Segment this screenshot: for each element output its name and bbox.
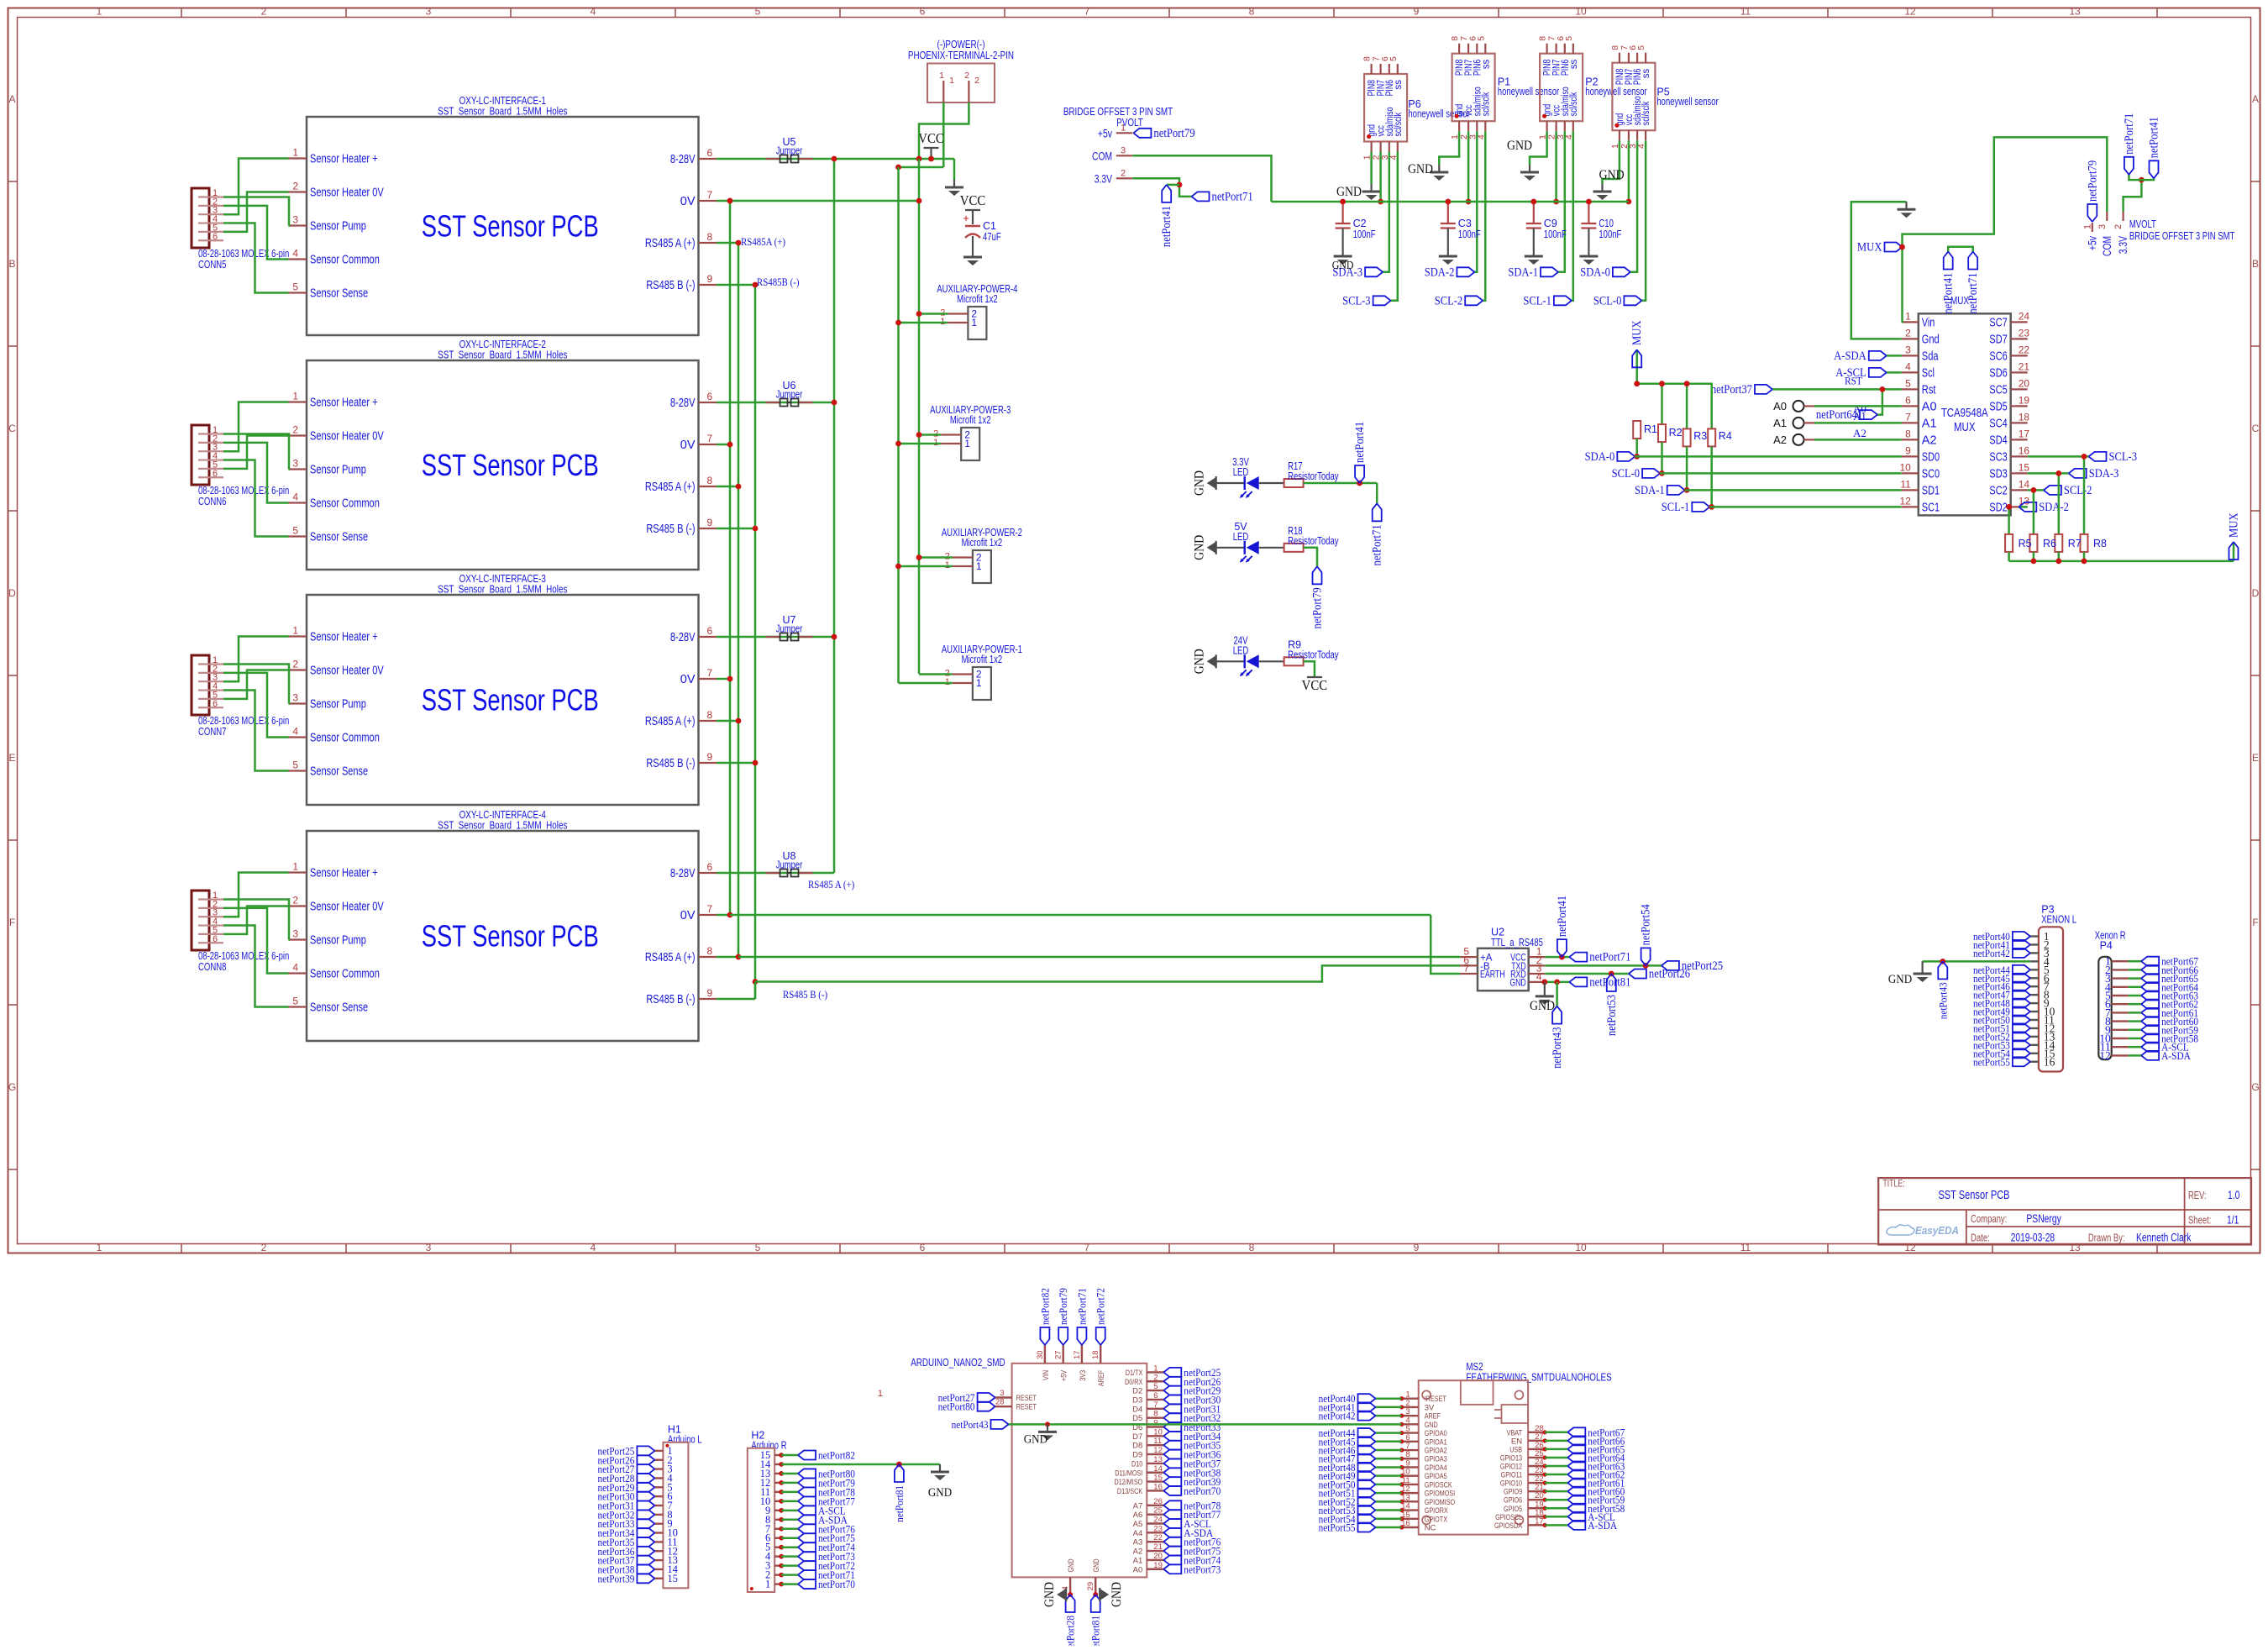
svg-text:MUX: MUX	[1630, 320, 1644, 345]
svg-text:Gnd: Gnd	[1922, 333, 1940, 346]
svg-text:C: C	[8, 423, 16, 434]
svg-text:C: C	[2252, 423, 2260, 434]
svg-text:R2: R2	[1669, 427, 1683, 439]
svg-text:18: 18	[1091, 1350, 1100, 1359]
svg-text:25: 25	[1153, 1506, 1163, 1516]
svg-text:47uF: 47uF	[983, 231, 1001, 243]
svg-text:+5v: +5v	[1098, 127, 1112, 139]
svg-text:100nF: 100nF	[1599, 229, 1621, 240]
svg-text:10: 10	[1575, 1242, 1587, 1253]
svg-text:PHOENIX-TERMINAL-2-PIN: PHOENIX-TERMINAL-2-PIN	[908, 49, 1014, 61]
svg-text:6: 6	[920, 6, 926, 18]
svg-text:A7: A7	[1133, 1501, 1143, 1511]
svg-text:A3: A3	[1133, 1538, 1143, 1548]
svg-text:20: 20	[1153, 1552, 1163, 1561]
svg-text:Sensor Heater +: Sensor Heater +	[310, 631, 378, 644]
svg-text:D0/RX: D0/RX	[1125, 1378, 1143, 1387]
svg-text:ss: ss	[1394, 80, 1404, 90]
svg-text:SDA-1: SDA-1	[1508, 265, 1538, 279]
svg-text:Sensor Pump: Sensor Pump	[310, 220, 366, 234]
svg-text:11: 11	[1153, 1437, 1162, 1446]
svg-text:SDA-1: SDA-1	[1635, 484, 1665, 497]
svg-text:GND: GND	[1092, 1558, 1101, 1572]
svg-text:A1: A1	[1773, 417, 1787, 429]
svg-text:SST Sensor PCB: SST Sensor PCB	[1938, 1189, 2009, 1202]
svg-text:netPort79: netPort79	[1311, 587, 1325, 628]
svg-text:honeywell sensor: honeywell sensor	[1656, 96, 1718, 108]
svg-text:8: 8	[707, 945, 713, 957]
svg-text:D: D	[8, 587, 16, 599]
svg-text:netPort82: netPort82	[1038, 1288, 1051, 1325]
svg-text:20: 20	[2019, 377, 2030, 389]
svg-text:SD6: SD6	[1989, 366, 2007, 380]
svg-text:RESET: RESET	[1016, 1394, 1037, 1403]
svg-text:7: 7	[1463, 963, 1469, 975]
svg-text:netPort55: netPort55	[1319, 1521, 1356, 1534]
svg-text:1: 1	[976, 677, 982, 689]
svg-text:10: 10	[1153, 1427, 1163, 1437]
svg-text:A2: A2	[1133, 1548, 1143, 1557]
svg-text:ss: ss	[1481, 59, 1491, 69]
svg-text:A1: A1	[1133, 1556, 1143, 1565]
svg-text:A-SDA: A-SDA	[1834, 349, 1866, 363]
svg-text:CONN5: CONN5	[198, 259, 226, 271]
svg-text:CONN7: CONN7	[198, 726, 226, 738]
svg-text:GND: GND	[1332, 259, 1354, 271]
svg-text:A2: A2	[1773, 434, 1787, 446]
svg-text:23: 23	[2019, 327, 2030, 339]
svg-text:Arduino L: Arduino L	[668, 1434, 702, 1446]
svg-text:0V: 0V	[680, 195, 696, 208]
svg-text:D11/MOSI: D11/MOSI	[1115, 1469, 1142, 1478]
svg-text:netPort43: netPort43	[952, 1418, 989, 1431]
svg-text:10: 10	[1899, 461, 1911, 473]
svg-text:1/1: 1/1	[2227, 1214, 2239, 1227]
svg-text:SC3: SC3	[1989, 450, 2007, 464]
svg-text:Sensor Heater 0V: Sensor Heater 0V	[310, 665, 384, 678]
svg-text:RS485 B (-): RS485 B (-)	[646, 279, 695, 292]
svg-text:RESET: RESET	[1016, 1403, 1037, 1412]
svg-text:SCL-3: SCL-3	[1342, 294, 1370, 307]
svg-text:3: 3	[292, 214, 298, 226]
svg-text:13: 13	[2069, 6, 2081, 18]
svg-text:REV:: REV:	[2188, 1190, 2207, 1201]
svg-text:5: 5	[1564, 36, 1574, 41]
svg-text:MVOLT: MVOLT	[2129, 218, 2156, 230]
svg-text:SD2: SD2	[1989, 501, 2007, 514]
svg-text:D10: D10	[1131, 1459, 1142, 1469]
svg-text:13: 13	[1153, 1455, 1163, 1464]
svg-text:5: 5	[1153, 1382, 1158, 1391]
svg-text:11: 11	[1900, 478, 1911, 490]
svg-text:G: G	[8, 1081, 16, 1093]
svg-text:Scl: Scl	[1922, 366, 1935, 380]
svg-text:D4: D4	[1132, 1405, 1142, 1414]
svg-text:netPort41: netPort41	[2148, 117, 2161, 158]
svg-text:14: 14	[1153, 1464, 1163, 1474]
svg-text:1: 1	[976, 560, 982, 572]
svg-text:4: 4	[591, 1242, 596, 1253]
svg-text:1: 1	[765, 1579, 770, 1590]
svg-text:30: 30	[1036, 1350, 1045, 1359]
svg-text:netPort55: netPort55	[1973, 1055, 2010, 1068]
svg-text:C2: C2	[1353, 218, 1367, 229]
svg-text:2: 2	[292, 424, 298, 436]
svg-text:SC1: SC1	[1922, 501, 1940, 514]
svg-text:08-28-1063 MOLEX 6-pin: 08-28-1063 MOLEX 6-pin	[198, 248, 289, 260]
svg-text:SST_Sensor_Board_1.5MM_Holes: SST_Sensor_Board_1.5MM_Holes	[438, 349, 568, 361]
svg-text:6: 6	[707, 861, 713, 873]
svg-text:4: 4	[591, 6, 596, 18]
svg-text:GND: GND	[1042, 1582, 1057, 1607]
svg-text:2: 2	[1905, 327, 1911, 339]
svg-text:C9: C9	[1544, 218, 1557, 229]
svg-text:SCL-2: SCL-2	[1435, 294, 1462, 307]
svg-text:+5v: +5v	[2086, 236, 2098, 250]
svg-text:1: 1	[97, 6, 102, 18]
svg-text:26: 26	[1153, 1497, 1163, 1506]
svg-text:18: 18	[2019, 411, 2030, 423]
svg-text:12: 12	[2099, 1049, 2111, 1062]
svg-text:ResistorToday: ResistorToday	[1288, 535, 1339, 547]
svg-text:7: 7	[707, 433, 713, 444]
svg-text:9: 9	[1414, 1242, 1420, 1253]
svg-text:8: 8	[707, 709, 713, 721]
svg-text:3: 3	[426, 6, 432, 18]
svg-text:9: 9	[1414, 6, 1420, 18]
svg-text:RS485B (-): RS485B (-)	[757, 276, 799, 288]
svg-text:VIN: VIN	[1042, 1370, 1051, 1380]
svg-text:honeywell sensor: honeywell sensor	[1498, 86, 1559, 97]
svg-text:2: 2	[292, 659, 298, 670]
svg-text:5: 5	[292, 525, 298, 537]
svg-text:D12/MISO: D12/MISO	[1114, 1478, 1142, 1487]
svg-text:8-28V: 8-28V	[670, 631, 696, 644]
svg-text:RS485A (+): RS485A (+)	[741, 236, 785, 248]
svg-text:SST Sensor PCB: SST Sensor PCB	[422, 919, 599, 954]
svg-text:5: 5	[1905, 377, 1911, 389]
svg-text:7: 7	[707, 903, 713, 915]
svg-text:6: 6	[920, 1242, 926, 1253]
svg-text:Sensor Common: Sensor Common	[310, 254, 380, 267]
svg-text:Jumper: Jumper	[776, 145, 803, 157]
svg-text:12: 12	[1899, 495, 1911, 507]
svg-text:netPort37: netPort37	[1711, 383, 1752, 397]
svg-text:100nF: 100nF	[1353, 229, 1376, 240]
svg-text:SC7: SC7	[1989, 316, 2007, 329]
svg-text:7: 7	[707, 667, 713, 679]
svg-text:GND: GND	[1507, 139, 1532, 153]
svg-text:3: 3	[1905, 344, 1911, 355]
svg-text:100nF: 100nF	[1544, 229, 1567, 240]
svg-text:SST_Sensor_Board_1.5MM_Holes: SST_Sensor_Board_1.5MM_Holes	[438, 105, 568, 118]
svg-text:B: B	[8, 258, 15, 270]
svg-text:GND: GND	[1067, 1558, 1076, 1572]
svg-text:Sensor Common: Sensor Common	[310, 968, 380, 981]
svg-text:A-SDA: A-SDA	[1588, 1519, 1617, 1532]
svg-text:GND: GND	[1530, 999, 1555, 1013]
svg-text:0V: 0V	[680, 439, 696, 452]
svg-text:D7: D7	[1132, 1432, 1142, 1442]
svg-text:F: F	[2252, 917, 2258, 928]
svg-text:24: 24	[1153, 1516, 1163, 1525]
svg-text:R4: R4	[1719, 430, 1732, 442]
svg-text:SST Sensor PCB: SST Sensor PCB	[422, 683, 599, 717]
svg-text:11: 11	[1740, 1242, 1751, 1253]
svg-text:B: B	[2252, 258, 2259, 270]
svg-text:MUX: MUX	[2228, 512, 2241, 538]
svg-text:12: 12	[1153, 1446, 1163, 1455]
svg-text:3: 3	[2097, 224, 2108, 229]
svg-text:A4: A4	[1133, 1529, 1143, 1538]
svg-text:netPort81: netPort81	[893, 1485, 906, 1522]
svg-text:9: 9	[707, 517, 713, 528]
svg-text:Sensor Pump: Sensor Pump	[310, 464, 366, 477]
svg-text:A0: A0	[1133, 1565, 1143, 1574]
svg-text:4: 4	[292, 962, 298, 974]
svg-text:22: 22	[1153, 1533, 1163, 1542]
svg-text:SDA-0: SDA-0	[1585, 450, 1615, 464]
svg-text:2: 2	[261, 6, 267, 18]
svg-text:9: 9	[1905, 444, 1911, 456]
svg-text:CONN6: CONN6	[198, 496, 226, 507]
svg-text:16: 16	[2044, 1055, 2055, 1068]
svg-text:Microfit 1x2: Microfit 1x2	[950, 414, 991, 426]
svg-text:22: 22	[2019, 344, 2030, 355]
svg-text:Sheet:: Sheet:	[2188, 1215, 2211, 1227]
svg-text:3: 3	[292, 692, 298, 704]
svg-text:16: 16	[1153, 1482, 1163, 1491]
svg-text:Sensor Sense: Sensor Sense	[310, 531, 368, 544]
svg-text:P4: P4	[2100, 940, 2113, 952]
svg-text:29: 29	[1086, 1582, 1095, 1591]
svg-text:Sensor Common: Sensor Common	[310, 497, 380, 511]
svg-text:D9: D9	[1132, 1451, 1142, 1460]
svg-text:SCL-0: SCL-0	[1593, 294, 1621, 307]
svg-text:7: 7	[707, 189, 713, 201]
svg-text:RS485 A (+): RS485 A (+)	[645, 951, 696, 964]
svg-text:+: +	[963, 212, 969, 224]
svg-text:Jumper: Jumper	[776, 623, 803, 635]
svg-text:8: 8	[707, 475, 713, 486]
svg-text:SST Sensor PCB: SST Sensor PCB	[422, 209, 599, 244]
svg-text:SDA-2: SDA-2	[1425, 265, 1455, 279]
svg-text:Jumper: Jumper	[776, 859, 803, 871]
svg-text:scl/sclk: scl/sclk	[1641, 102, 1651, 126]
svg-text:PSNergy: PSNergy	[2026, 1212, 2061, 1225]
svg-text:2: 2	[261, 1242, 267, 1253]
svg-text:2: 2	[964, 71, 969, 81]
svg-text:14: 14	[2019, 478, 2030, 490]
svg-text:Sensor Sense: Sensor Sense	[310, 765, 368, 779]
svg-text:scl/sclk: scl/sclk	[1569, 92, 1579, 117]
svg-text:LED: LED	[1233, 466, 1249, 478]
svg-text:GND: GND	[1336, 185, 1362, 199]
svg-text:GND: GND	[1509, 978, 1525, 988]
svg-text:1: 1	[949, 76, 954, 86]
svg-text:MUX: MUX	[1857, 241, 1882, 255]
svg-text:AREF: AREF	[1097, 1370, 1106, 1387]
svg-text:R6: R6	[2043, 538, 2056, 549]
svg-text:A: A	[2252, 93, 2259, 105]
svg-text:Rst: Rst	[1922, 383, 1936, 397]
svg-text:10: 10	[1575, 6, 1587, 18]
svg-text:27: 27	[1054, 1350, 1063, 1359]
svg-text:8: 8	[1249, 6, 1255, 18]
svg-text:D8: D8	[1132, 1442, 1142, 1451]
svg-text:Kenneth Clark: Kenneth Clark	[2136, 1232, 2192, 1244]
svg-text:netPort71: netPort71	[1075, 1288, 1088, 1325]
svg-text:SC0: SC0	[1922, 467, 1940, 481]
svg-text:RST: RST	[1845, 374, 1862, 386]
svg-text:netPort41: netPort41	[1160, 206, 1173, 247]
svg-text:netPort43: netPort43	[1551, 1027, 1564, 1069]
svg-text:F: F	[9, 917, 15, 928]
svg-text:4: 4	[292, 491, 298, 503]
svg-text:24: 24	[2019, 310, 2030, 322]
svg-text:SCL-1: SCL-1	[1662, 501, 1689, 514]
svg-text:1: 1	[97, 1242, 102, 1253]
svg-text:8: 8	[707, 231, 713, 243]
svg-text:5: 5	[292, 759, 298, 771]
svg-text:COM: COM	[2101, 236, 2113, 256]
svg-text:A2: A2	[1922, 434, 1937, 447]
svg-text:netPort72: netPort72	[1095, 1288, 1107, 1325]
svg-text:netPort80: netPort80	[938, 1400, 975, 1413]
svg-text:NC: NC	[1425, 1524, 1436, 1533]
svg-text:D2: D2	[1132, 1387, 1142, 1396]
svg-text:COM: COM	[1092, 150, 1112, 162]
svg-text:Date:: Date:	[1971, 1232, 1990, 1244]
svg-text:SC2: SC2	[1989, 484, 2007, 497]
svg-text:Microfit 1x2: Microfit 1x2	[957, 293, 998, 305]
svg-text:TITLE:: TITLE:	[1882, 1180, 1904, 1190]
svg-text:netPort28: netPort28	[1064, 1616, 1077, 1646]
svg-text:BRIDGE OFFSET 3 PIN SMT: BRIDGE OFFSET 3 PIN SMT	[2129, 230, 2235, 242]
svg-text:SC6: SC6	[1989, 349, 2007, 363]
svg-text:Sensor Heater 0V: Sensor Heater 0V	[310, 901, 384, 914]
svg-text:GND: GND	[1408, 162, 1433, 176]
svg-text:RS485 B (-): RS485 B (-)	[646, 757, 695, 770]
svg-text:A: A	[8, 93, 15, 105]
svg-text:scl/sclk: scl/sclk	[1394, 113, 1404, 137]
svg-text:GND: GND	[928, 1486, 952, 1500]
svg-text:A6: A6	[1133, 1511, 1143, 1520]
svg-text:3: 3	[292, 928, 298, 940]
svg-text:19: 19	[1153, 1561, 1163, 1570]
svg-text:8: 8	[1153, 1410, 1158, 1419]
svg-text:4: 4	[1905, 360, 1911, 372]
svg-text:netPort43: netPort43	[1936, 982, 1949, 1019]
svg-text:TTL_a_RS485: TTL_a_RS485	[1491, 937, 1543, 948]
svg-text:Microfit 1x2: Microfit 1x2	[962, 654, 1003, 665]
svg-text:GPIOSDA: GPIOSDA	[1494, 1521, 1523, 1531]
svg-text:5: 5	[292, 281, 298, 293]
svg-text:EasyEDA: EasyEDA	[1915, 1224, 1959, 1237]
svg-text:SD4: SD4	[1989, 434, 2007, 447]
svg-text:6: 6	[1905, 394, 1911, 406]
svg-text:8: 8	[1249, 1242, 1255, 1253]
svg-text:RS485 B (-): RS485 B (-)	[783, 989, 827, 1001]
svg-text:R3: R3	[1693, 430, 1707, 442]
svg-text:SST Sensor PCB: SST Sensor PCB	[422, 448, 599, 482]
svg-text:ss: ss	[1641, 68, 1651, 78]
svg-text:Sensor Heater +: Sensor Heater +	[310, 867, 378, 880]
svg-text:VCC: VCC	[960, 192, 985, 208]
svg-text:RS485 B (-): RS485 B (-)	[646, 993, 695, 1006]
svg-text:D3: D3	[1132, 1395, 1142, 1405]
svg-text:100nF: 100nF	[1458, 229, 1481, 240]
svg-text:28: 28	[995, 1398, 1005, 1407]
svg-text:SC4: SC4	[1989, 417, 2007, 430]
svg-text:netPort70: netPort70	[1184, 1484, 1221, 1497]
svg-text:Sensor Heater +: Sensor Heater +	[310, 153, 378, 166]
svg-text:ResistorToday: ResistorToday	[1288, 649, 1339, 660]
svg-text:R1: R1	[1644, 423, 1657, 435]
svg-text:CONN8: CONN8	[198, 961, 226, 973]
svg-text:netPort82: netPort82	[818, 1449, 855, 1462]
svg-text:3: 3	[292, 458, 298, 470]
svg-text:SCL-2: SCL-2	[2064, 484, 2092, 497]
svg-text:0V: 0V	[680, 673, 696, 686]
svg-text:netPort70: netPort70	[818, 1578, 855, 1590]
svg-text:6: 6	[213, 469, 218, 479]
svg-text:2: 2	[1121, 168, 1126, 178]
svg-text:D5: D5	[1132, 1414, 1142, 1423]
svg-text:A5: A5	[1133, 1520, 1143, 1529]
svg-text:GND: GND	[1193, 535, 1207, 560]
svg-text:15: 15	[2019, 461, 2030, 473]
svg-text:netPort42: netPort42	[1319, 1410, 1356, 1422]
svg-text:GND: GND	[1193, 470, 1207, 496]
svg-text:4: 4	[1536, 970, 1542, 982]
svg-text:1: 1	[971, 317, 977, 328]
svg-text:7: 7	[1905, 411, 1911, 423]
svg-text:0V: 0V	[680, 909, 696, 922]
svg-text:12: 12	[1904, 1242, 1916, 1253]
svg-text:VCC: VCC	[918, 130, 943, 146]
svg-text:9: 9	[1153, 1419, 1158, 1428]
svg-text:4: 4	[292, 726, 298, 738]
svg-text:RS485 A (+): RS485 A (+)	[645, 237, 696, 250]
svg-text:SST_Sensor_Board_1.5MM_Holes: SST_Sensor_Board_1.5MM_Holes	[438, 583, 568, 596]
svg-text:A0: A0	[1773, 400, 1787, 412]
svg-text:Sensor Sense: Sensor Sense	[310, 287, 368, 301]
svg-text:SD5: SD5	[1989, 400, 2007, 413]
svg-text:netPort53: netPort53	[1605, 995, 1619, 1036]
svg-text:21: 21	[1153, 1542, 1163, 1552]
svg-text:17: 17	[1535, 1516, 1544, 1526]
svg-text:Microfit 1x2: Microfit 1x2	[962, 537, 1003, 549]
svg-text:TCA9548A: TCA9548A	[1941, 406, 1988, 420]
svg-text:1: 1	[1905, 310, 1911, 322]
svg-text:netPort79: netPort79	[1153, 127, 1194, 140]
svg-text:EARTH: EARTH	[1480, 970, 1505, 980]
svg-text:1: 1	[292, 625, 298, 637]
svg-text:1: 1	[292, 861, 298, 873]
svg-text:E: E	[8, 752, 15, 764]
svg-text:2: 2	[292, 181, 298, 192]
svg-text:5: 5	[1389, 56, 1399, 61]
svg-text:FEATHERWING_SMTDUALNOHOLES: FEATHERWING_SMTDUALNOHOLES	[1466, 1371, 1612, 1384]
svg-text:Company:: Company:	[1971, 1213, 2007, 1225]
svg-text:C1: C1	[983, 220, 996, 232]
svg-text:Sensor Heater +: Sensor Heater +	[310, 397, 378, 410]
svg-text:3: 3	[1000, 1389, 1004, 1398]
svg-text:C3: C3	[1458, 218, 1472, 229]
svg-text:D13/SCK: D13/SCK	[1117, 1487, 1143, 1496]
svg-text:netPort26: netPort26	[1649, 968, 1690, 981]
